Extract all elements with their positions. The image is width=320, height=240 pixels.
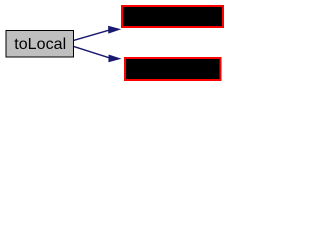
wire edge 2 (74, 47, 122, 63)
wire edge 1 (74, 26, 121, 41)
svg-text:toLocal: toLocal (14, 36, 66, 53)
node toLocal (6, 31, 74, 58)
doxygen call graph (0, 0, 228, 88)
node callee 2 (truncated, red) (125, 58, 221, 80)
node callee 1 (truncated, red) (122, 6, 223, 27)
